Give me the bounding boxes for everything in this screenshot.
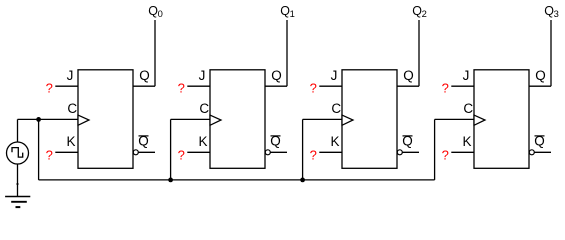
wire clock bottom lead bbox=[17, 164, 19, 197]
stage 4 clock edge triangle bbox=[474, 115, 485, 125]
svg-text:?: ? bbox=[46, 148, 53, 163]
JK flip-flop stage 3 body bbox=[342, 70, 397, 169]
wire Qbar output stub stage 2 bbox=[270, 151, 287, 153]
svg-text:Q: Q bbox=[403, 68, 414, 83]
junction bus stage 2 bbox=[168, 178, 173, 183]
wire Q output stage 1 bbox=[133, 85, 155, 87]
stage 1 Qbar bubble bbox=[133, 150, 138, 155]
wire Qbar output stub stage 4 bbox=[534, 151, 551, 153]
wire clock riser stage 3 bbox=[302, 119, 304, 179]
svg-text:C: C bbox=[67, 101, 77, 116]
ground bbox=[5, 197, 30, 208]
JK flip-flop stage 4 body bbox=[474, 70, 529, 169]
wire Q output stage 2 bbox=[265, 85, 287, 87]
wire K input stub stage 4 bbox=[451, 151, 474, 153]
wire clock riser 1 down to bus bbox=[38, 119, 40, 179]
svg-text:C: C bbox=[463, 101, 473, 116]
svg-text:2: 2 bbox=[422, 8, 427, 19]
JK flip-flop stage 1 body bbox=[78, 70, 133, 169]
svg-text:Q: Q bbox=[535, 68, 546, 83]
wire clock riser stage 4 bbox=[434, 119, 436, 179]
wire Qbar output stub stage 3 bbox=[402, 151, 419, 153]
svg-text:0: 0 bbox=[158, 8, 163, 19]
wire Q output stage 4 bbox=[529, 85, 551, 87]
wire clock top lead bbox=[17, 119, 19, 142]
wire clock to FF1 C input bbox=[18, 118, 79, 120]
svg-text:J: J bbox=[199, 68, 206, 83]
wire J input stub stage 4 bbox=[451, 85, 474, 87]
JK flip-flop stage 2 body bbox=[210, 70, 265, 169]
junction clock bottom bbox=[16, 183, 18, 185]
svg-text:?: ? bbox=[310, 81, 317, 96]
wire J input stub stage 2 bbox=[187, 85, 210, 87]
svg-text:?: ? bbox=[46, 81, 53, 96]
wire Q output stage 3 bbox=[397, 85, 419, 87]
wire riser to C input stage 3 bbox=[303, 118, 342, 120]
svg-text:Q: Q bbox=[271, 68, 282, 83]
junction bus stage 3 bbox=[300, 178, 305, 183]
stage 3 clock edge triangle bbox=[342, 115, 353, 125]
wire J input stub stage 1 bbox=[55, 85, 78, 87]
svg-text:3: 3 bbox=[554, 8, 559, 19]
svg-text:K: K bbox=[462, 134, 471, 149]
svg-text:?: ? bbox=[178, 81, 185, 96]
svg-text:J: J bbox=[67, 68, 74, 83]
wire K input stub stage 2 bbox=[187, 151, 210, 153]
wire riser to C input stage 4 bbox=[435, 118, 474, 120]
wire K input stub stage 3 bbox=[319, 151, 342, 153]
svg-text:1: 1 bbox=[290, 8, 295, 19]
wire Qbar output stub stage 1 bbox=[138, 151, 155, 153]
stage 2 clock edge triangle bbox=[210, 115, 221, 125]
svg-text:C: C bbox=[199, 101, 209, 116]
svg-text:?: ? bbox=[442, 148, 449, 163]
stage 2 Qbar bubble bbox=[265, 150, 270, 155]
stage 4 Qbar bubble bbox=[529, 150, 534, 155]
svg-text:K: K bbox=[66, 134, 75, 149]
svg-text:K: K bbox=[330, 134, 339, 149]
svg-text:?: ? bbox=[310, 148, 317, 163]
wire riser to C input stage 2 bbox=[171, 118, 210, 120]
stage 3 Qbar bubble bbox=[397, 150, 402, 155]
wire K input stub stage 1 bbox=[55, 151, 78, 153]
junction clock node bbox=[36, 117, 41, 122]
svg-text:C: C bbox=[331, 101, 341, 116]
wire clock riser stage 2 bbox=[170, 119, 172, 179]
wire J input stub stage 3 bbox=[319, 85, 342, 87]
svg-text:J: J bbox=[463, 68, 470, 83]
svg-text:J: J bbox=[331, 68, 338, 83]
svg-text:K: K bbox=[198, 134, 207, 149]
wire clock bus bbox=[39, 179, 435, 181]
svg-text:Q: Q bbox=[139, 68, 150, 83]
svg-text:?: ? bbox=[442, 81, 449, 96]
stage 1 clock edge triangle bbox=[78, 115, 89, 125]
svg-text:?: ? bbox=[178, 148, 185, 163]
clock source V1 bbox=[7, 142, 29, 164]
